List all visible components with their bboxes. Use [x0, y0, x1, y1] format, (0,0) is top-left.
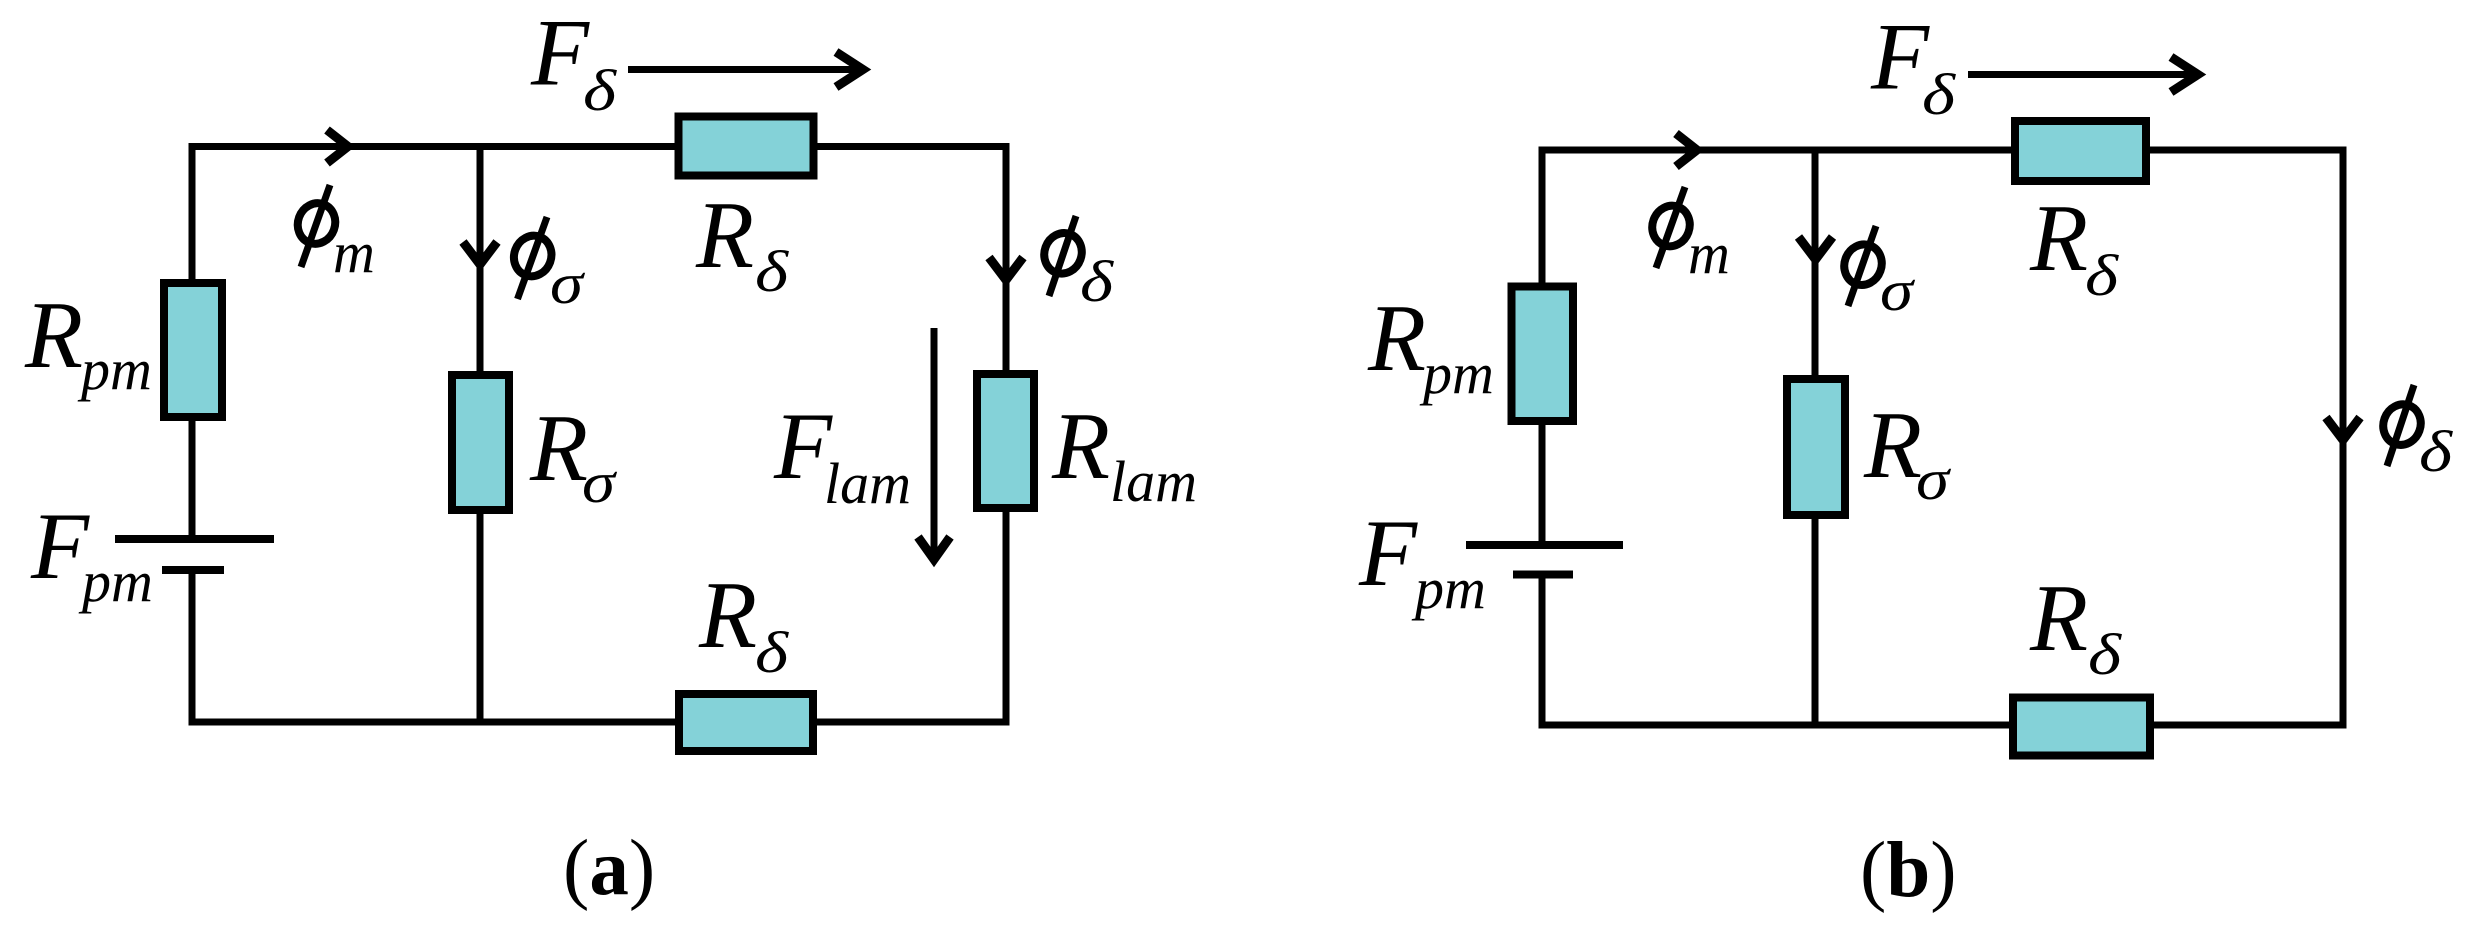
svg-text:σ: σ	[582, 450, 618, 515]
svg-text:lam: lam	[1110, 449, 1197, 514]
svg-text:δ: δ	[2085, 243, 2119, 308]
svg-text:pm: pm	[78, 549, 153, 614]
svg-text:σ: σ	[1880, 258, 1916, 323]
svg-text:pm: pm	[1411, 556, 1486, 621]
svg-text:δ: δ	[583, 58, 617, 123]
svg-text:R: R	[1051, 393, 1110, 499]
svg-text:R: R	[698, 562, 757, 668]
svg-text:m: m	[1688, 221, 1730, 286]
svg-text:F: F	[530, 0, 590, 106]
svg-text:(b): (b)	[1860, 827, 1957, 914]
svg-text:R: R	[2029, 185, 2088, 291]
svg-text:F: F	[1870, 4, 1930, 110]
svg-text:R: R	[1863, 392, 1922, 498]
svg-text:pm: pm	[77, 337, 152, 402]
svg-text:δ: δ	[755, 620, 789, 685]
svg-text:δ: δ	[755, 239, 789, 304]
svg-text:δ: δ	[1080, 249, 1114, 314]
svg-text:(a): (a)	[563, 825, 655, 912]
svg-text:R: R	[2029, 565, 2088, 671]
svg-text:F: F	[1358, 500, 1418, 606]
svg-text:R: R	[1367, 285, 1426, 391]
svg-text:R: R	[529, 395, 588, 501]
svg-text:δ: δ	[2419, 419, 2453, 484]
svg-text:R: R	[24, 282, 83, 388]
svg-text:σ: σ	[550, 251, 586, 316]
svg-text:lam: lam	[824, 451, 911, 516]
svg-text:pm: pm	[1419, 341, 1494, 406]
svg-text:R: R	[695, 182, 754, 288]
svg-text:m: m	[333, 220, 375, 285]
svg-text:δ: δ	[1922, 62, 1956, 127]
svg-text:δ: δ	[2088, 622, 2122, 687]
svg-text:F: F	[30, 493, 90, 599]
svg-text:σ: σ	[1916, 447, 1952, 512]
